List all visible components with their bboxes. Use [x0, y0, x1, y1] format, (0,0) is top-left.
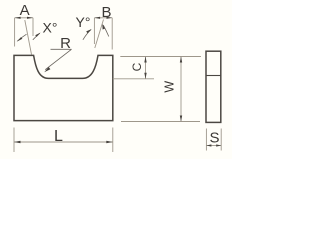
dimension W dimension line [180, 57, 182, 122]
dimension B extension line left [93, 18, 95, 44]
svg-text:W: W [163, 81, 177, 93]
angle X arrowhead upper-right [35, 33, 40, 37]
dimension L arrowhead right [106, 141, 113, 143]
dimension L extension line left [13, 128, 15, 153]
dimension S arrowhead right [216, 144, 221, 146]
dimension S dimension line [206, 145, 221, 147]
radius R shelf line [51, 48, 72, 50]
svg-text:L: L [54, 128, 63, 145]
svg-text:S: S [209, 130, 219, 147]
side section view outline [206, 51, 221, 122]
svg-text:X°: X° [43, 20, 58, 36]
angle Y arrowhead pointing up at wall line [102, 24, 105, 30]
dimension C top extension line (top surface) [120, 56, 201, 58]
dimension W arrowhead top [180, 57, 182, 63]
dimension S arrowhead left [206, 144, 211, 146]
dimension C arrowhead bottom [144, 73, 146, 79]
part outline: front view block with U-groove [14, 55, 113, 120]
radius R leader line [45, 49, 71, 69]
angle Y arrow tail from label [83, 30, 91, 40]
angle X reference slant line (left groove wall extended) [25, 20, 32, 55]
dimension S extension line left [205, 129, 207, 151]
dimension A arrowhead left [15, 17, 21, 19]
angle Y arrow tail near wall line [103, 25, 109, 37]
dimension A extension line left [14, 18, 16, 47]
dimension S extension line right [220, 129, 222, 151]
dimension B dimension line [94, 17, 112, 19]
dimension C dimension line [145, 57, 147, 79]
dimension W bottom extension line [121, 121, 200, 123]
angle X arrowhead lower-left [17, 37, 23, 42]
dimension A dimension line [15, 17, 33, 19]
dimension A extension line right [32, 18, 34, 36]
dimension L extension line right [112, 128, 114, 153]
svg-text:A: A [20, 2, 30, 19]
angle X arrow tail lower-left [17, 34, 26, 41]
side section groove depth line [206, 75, 221, 77]
dimension W arrowhead bottom [180, 116, 182, 122]
dimension C arrowhead top [144, 57, 146, 63]
radius R arrowhead [44, 67, 50, 72]
svg-text:C: C [130, 62, 144, 71]
dimension B arrowhead left [94, 17, 100, 19]
dimension C bottom extension line (groove bottom) [113, 78, 154, 80]
dimension A arrowhead right [27, 17, 33, 19]
dimension L arrowhead left [14, 141, 21, 143]
svg-text:Y°: Y° [76, 14, 91, 30]
dimension B arrowhead right [107, 17, 113, 19]
angle Y arrowhead pointing up-left [86, 29, 92, 33]
angle X arrow tail upper-right [33, 33, 40, 40]
angle Y reference slant line (right groove wall extended) [95, 20, 104, 49]
dimension B extension line right [111, 18, 113, 50]
dimension L dimension line [14, 141, 113, 143]
